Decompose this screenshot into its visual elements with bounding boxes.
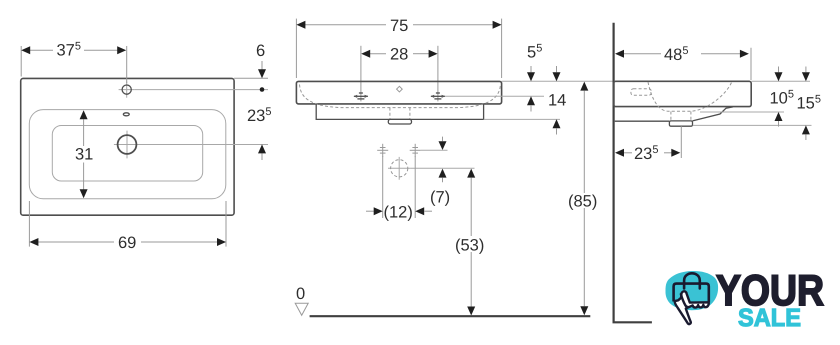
dim 31 <box>83 119 85 146</box>
dim (85) <box>580 82 588 91</box>
svg-text:(85): (85) <box>568 193 597 211</box>
body side <box>614 81 752 106</box>
ref line 15.5 <box>693 124 812 126</box>
ref line 10.5 <box>700 111 784 113</box>
drain ref line <box>141 144 269 146</box>
overflow slot <box>123 113 129 116</box>
dim (7) upper arrow <box>442 137 444 142</box>
svg-text:(12): (12) <box>384 204 413 222</box>
washbasin outer rim <box>21 78 234 215</box>
pedestal ref line <box>484 118 560 120</box>
svg-text:69: 69 <box>118 234 136 252</box>
drain pipe dashed circle <box>398 157 400 180</box>
drain crosshair <box>126 131 128 159</box>
drain dashed side <box>670 112 672 121</box>
svg-text:0: 0 <box>296 285 305 303</box>
faucet hole mark left <box>354 93 369 99</box>
dim 10.5 arrows <box>778 67 780 73</box>
dim 28 <box>360 46 362 102</box>
drain dashed <box>389 108 391 120</box>
svg-text:31: 31 <box>75 146 93 164</box>
drain circle <box>118 135 137 154</box>
click hand <box>675 291 709 324</box>
svg-text:(53): (53) <box>455 237 484 255</box>
svg-text:28: 28 <box>390 46 408 64</box>
faucet hole mark right <box>431 93 446 99</box>
dim 6 <box>234 77 268 79</box>
dim (12) <box>382 156 384 218</box>
shopping bag body <box>674 284 709 303</box>
pedestal <box>316 104 483 119</box>
underside <box>615 120 670 122</box>
hole ref line <box>421 149 448 151</box>
dim (53) <box>467 169 475 178</box>
basin inner rim <box>29 110 226 199</box>
small diamond <box>397 86 403 92</box>
svg-text:6: 6 <box>256 42 265 60</box>
svg-text:SALE: SALE <box>738 304 801 332</box>
faucet dashed <box>631 89 651 96</box>
svg-text:14: 14 <box>548 92 566 110</box>
mounting hole right <box>410 144 421 157</box>
teal blob <box>665 271 718 310</box>
faucet hole ref line <box>135 89 268 91</box>
dim 48.5 <box>750 48 752 80</box>
drain trap <box>669 121 692 126</box>
dim 14 <box>556 66 558 72</box>
dim 37.5 <box>20 46 22 77</box>
faucet ref line <box>445 95 544 97</box>
bowl dashed side <box>648 82 732 111</box>
drain tray <box>388 119 411 124</box>
top edge ref line <box>502 80 614 82</box>
basin bottom <box>52 126 202 182</box>
finger inner edge <box>681 294 688 307</box>
dim 5.5 <box>530 66 532 72</box>
mounting hole left <box>377 144 388 157</box>
bowl profile dashed <box>300 85 501 108</box>
dim 75 <box>295 19 297 78</box>
bag handle <box>684 273 700 288</box>
svg-text:75: 75 <box>390 17 408 35</box>
top ref line right <box>751 80 810 82</box>
dim (7) lower arrow <box>439 169 447 178</box>
dim 23.5 side <box>680 126 682 158</box>
dim 69 <box>28 201 30 247</box>
wall floor stub <box>613 321 652 323</box>
svg-text:(7): (7) <box>430 189 450 207</box>
basin body front <box>296 81 501 104</box>
dim 15.5 arrows <box>805 67 807 73</box>
wall line <box>612 23 614 323</box>
drain ref line <box>410 167 474 169</box>
faucet hole crosshair <box>126 82 128 98</box>
floor line <box>310 315 591 317</box>
